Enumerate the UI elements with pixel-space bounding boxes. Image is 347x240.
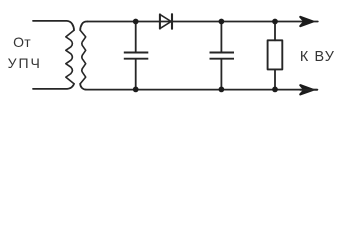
arrow: bottom output to VU (300, 85, 313, 94)
resistor R1 top lead (274, 22, 276, 41)
label: "От" (input, line 1) (13, 36, 31, 49)
diode VD1 anode bar (159, 14, 161, 28)
node: junction dot R1 / bottom rail (272, 87, 278, 93)
node: junction dot C2 / bottom rail (219, 87, 225, 93)
wire: secondary top lead to top rail (80, 21, 87, 30)
node: junction dot C1 / top rail (133, 19, 139, 25)
diode VD1 cathode bar (171, 14, 173, 29)
transformer T1 primary winding (66, 30, 74, 84)
capacitor C1 top plate (124, 52, 149, 54)
capacitor C2 top lead (220, 22, 222, 52)
resistor R1 bottom lead (274, 69, 276, 89)
capacitor C1 bottom lead (135, 60, 137, 90)
label: "К ВУ" (output) (300, 51, 335, 64)
capacitor C2 bottom lead (220, 60, 222, 90)
capacitor C1 top lead (135, 22, 137, 52)
wire: bottom rail (86, 89, 318, 91)
node: junction dot R1 / top rail (272, 19, 278, 25)
wire: bottom-left input lead (33, 84, 74, 89)
wire: top-left input lead (33, 21, 74, 30)
wire: secondary bottom lead to bottom rail (80, 84, 86, 90)
capacitor C2 bottom plate (210, 58, 235, 60)
label: "УПЧ" (input, line 2) (8, 57, 42, 70)
capacitor C1 bottom plate (124, 58, 149, 60)
wire: bottom rail tail through arrow (300, 89, 317, 91)
capacitor C2 top plate (210, 52, 235, 54)
diode VD1 triangle (160, 14, 171, 28)
node: junction dot C2 / top rail (219, 19, 225, 25)
transformer T1 secondary winding (80, 30, 86, 84)
resistor R1 body (268, 40, 283, 69)
arrow: top output to VU (300, 17, 313, 26)
node: junction dot C1 / bottom rail (133, 87, 139, 93)
wire: top rail (87, 21, 317, 23)
